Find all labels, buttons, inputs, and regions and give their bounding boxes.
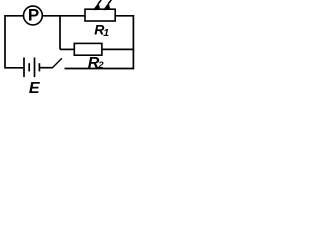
resistor R2 body — [74, 43, 102, 55]
svg-text:1: 1 — [103, 27, 109, 39]
svg-text:E: E — [29, 80, 41, 93]
resistor R1 body — [85, 9, 115, 21]
wire battery to switch — [39, 67, 52, 69]
meter P (U1) — [24, 6, 43, 25]
wire bottom-left segment — [5, 67, 24, 69]
label R1 — [94, 21, 109, 39]
battery E cell 2 short plate — [38, 63, 40, 71]
wire right vertical — [132, 15, 134, 69]
light arrows onto R1 — [93, 0, 111, 10]
label R2 — [88, 55, 105, 72]
switch S blade — [52, 58, 62, 68]
wire switch to right vertical — [65, 68, 135, 70]
wire R1 to right vertical — [115, 15, 134, 17]
wire middle branch horizontal — [60, 48, 74, 50]
battery E cell 1 short plate — [28, 63, 30, 71]
wire R2 to right vertical — [102, 48, 134, 50]
wire left vertical — [4, 15, 6, 69]
wire branch vertical — [59, 16, 61, 50]
battery E cell 2 long plate — [34, 58, 36, 78]
battery E cell 1 long plate — [23, 58, 25, 78]
wire top-left segment — [5, 15, 23, 17]
svg-text:P: P — [28, 6, 39, 25]
wire meter to R1 — [43, 15, 85, 17]
